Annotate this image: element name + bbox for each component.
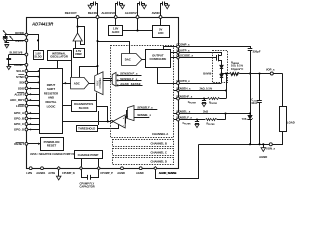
block 2.5V VREF — [74, 49, 85, 58]
svg-text:SLDO: SLDO — [34, 55, 41, 59]
wire SLDO1V8 decoupling — [9, 54, 25, 56]
supply arrow DVCC — [10, 36, 13, 40]
pin DGND — [25, 63, 28, 66]
ground AGND below line — [263, 144, 265, 147]
wire DVCC to pin — [7, 40, 25, 42]
block POWER-ON RESET — [41, 138, 64, 151]
pin CPUMP_N — [79, 167, 82, 170]
svg-text:SHIFT: SHIFT — [47, 87, 55, 91]
svg-text:REGISTER: REGISTER — [44, 91, 58, 95]
svg-text:AGND: AGND — [136, 171, 144, 175]
svg-text:LVIN: LVIN — [26, 171, 32, 175]
svg-text:SENSEL_x: SENSEL_x — [137, 113, 151, 117]
svg-text:CPUMP FLY: CPUMP FLY — [80, 181, 95, 185]
dashed box CHANNEL A — [111, 46, 174, 138]
wire oscillator to digital block — [57, 61, 59, 69]
regulator block 1.8V SLDO — [34, 51, 44, 60]
net stub SENSEHF_x into sense mux — [118, 75, 141, 77]
svg-text:I/ON_x: I/ON_x — [266, 147, 275, 151]
svg-text:DAC: DAC — [125, 58, 131, 62]
svg-text:CHANNEL C: CHANNEL C — [151, 150, 167, 154]
wire sensel vertical — [225, 114, 227, 120]
wire digital block to diagnostics block — [63, 105, 72, 107]
pin AGND — [139, 167, 142, 170]
wire REFIN branch to channel mux — [97, 66, 99, 74]
wire LDAC to digital block — [28, 105, 40, 107]
net stub AGND_SENSE into sense mux — [118, 85, 142, 87]
svg-text:DIAGNOSTICS: DIAGNOSTICS — [74, 102, 93, 106]
svg-text:CPUMP_P: CPUMP_P — [100, 171, 113, 175]
pin ALDO5V — [136, 16, 139, 19]
svg-text:GPO_B: GPO_B — [14, 117, 24, 121]
svg-text:FILTER: FILTER — [189, 102, 196, 104]
dashed box CHANNEL D — [113, 158, 174, 165]
regulator block 1.8V ALDO — [109, 26, 123, 36]
wire channel mux to sense mux upper — [103, 78, 112, 80]
pin SDI — [25, 81, 28, 84]
svg-text:SYNC: SYNC — [16, 75, 25, 79]
pin IOP_x screw terminal — [270, 72, 273, 75]
svg-text:VREF: VREF — [75, 52, 82, 56]
node SLDO cap on DGND wire — [8, 64, 10, 66]
pin ADC_RDY — [25, 99, 28, 102]
resistor RFILTER of SENSEHF — [208, 98, 220, 100]
pin AVSS — [57, 167, 60, 170]
dashed box CHANNEL C — [113, 149, 174, 156]
wire DAC to output configure — [142, 59, 146, 61]
svg-text:10nF: 10nF — [251, 101, 258, 105]
wire REFIN into chip to ADC reference — [80, 19, 98, 78]
pin VIOUTP_x — [176, 51, 179, 54]
capacitor CPUMP fly capacitor — [82, 170, 88, 178]
wire sense vertical to RSENSE left — [226, 74, 228, 99]
svg-text:FILTER: FILTER — [208, 124, 215, 126]
wire output configure to VIOUTP_x pin — [171, 52, 177, 54]
svg-text:LOAD: LOAD — [287, 120, 295, 124]
pin GPO_B — [25, 117, 28, 120]
ground for DVCC cap — [5, 45, 9, 48]
svg-text:SENSELF_x: SENSELF_x — [120, 77, 138, 81]
diode D2 BAV99 bottom — [220, 74, 223, 77]
wire VIOUTN_x to BAV99 bottom — [180, 83, 222, 85]
wire output configure to CCOMP_x pin — [164, 47, 177, 50]
wire diagnostics block to threshold — [98, 111, 100, 125]
sense select mux — [112, 72, 116, 86]
wire GPO_C to digital block — [28, 124, 40, 126]
svg-text:DGND: DGND — [14, 63, 22, 67]
wire SDO to digital block — [28, 88, 40, 90]
regulator block 5V LDO — [153, 26, 170, 38]
svg-text:AND: AND — [48, 96, 54, 100]
wire RESET to power-on reset block — [28, 143, 40, 145]
ground for ALDO5V cap — [142, 5, 146, 9]
svg-text:SENSELF_x: SENSELF_x — [137, 106, 153, 110]
pin SCLK — [25, 70, 28, 73]
pin REFOUT — [76, 16, 79, 19]
svg-text:INTERNAL: INTERNAL — [52, 51, 66, 55]
svg-text:CHANNEL D: CHANNEL D — [151, 159, 167, 163]
svg-text:AVDD: AVDD — [152, 11, 160, 15]
svg-text:5V: 5V — [159, 28, 162, 32]
pin ALDO1V8 — [114, 16, 117, 19]
transistor Q1 external FET — [216, 55, 218, 61]
svg-text:CONFIGURE: CONFIGURE — [150, 57, 167, 61]
node CLOAD bottom — [258, 143, 260, 145]
svg-text:CHARGE PUMP: CHARGE PUMP — [78, 153, 99, 157]
ground for SENSEHF CFILTER — [202, 103, 206, 106]
svg-text:SLDO1V8: SLDO1V8 — [9, 51, 22, 55]
block DIAGNOSTICS BLOCK — [72, 101, 97, 112]
comparator U3 digital input — [113, 115, 125, 128]
resistor RFILTER of SENSELF — [206, 119, 218, 121]
pin CASCODE_x — [176, 56, 179, 59]
pin IOVDD — [25, 33, 28, 36]
wire oscillator to ADC — [71, 61, 73, 78]
decoupling capacitor on REFIN to AGND — [96, 4, 98, 16]
svg-text:CHANNEL B: CHANNEL B — [151, 141, 167, 145]
svg-text:DIGITAL: DIGITAL — [46, 100, 57, 104]
wire AVDD to 5V LDO block — [160, 18, 162, 25]
pin DVCC — [25, 39, 28, 42]
wire AGND_SENSE to AGND line — [156, 145, 199, 179]
pin SENSEHF_x — [177, 97, 180, 100]
svg-text:SDO: SDO — [18, 86, 25, 90]
wire channel mux to sense mux lower — [103, 80, 112, 82]
svg-text:BAV99: BAV99 — [203, 72, 212, 76]
decoupling capacitor on DVCC — [6, 40, 8, 42]
wire LOAD to AGND line — [199, 132, 283, 145]
svg-text:AGND_SENSE: AGND_SENSE — [159, 171, 177, 175]
supply arrow IOVDD — [3, 30, 6, 34]
svg-text:2kΩ: 2kΩ — [203, 110, 209, 114]
decoupling capacitor on AVDD to AGND — [161, 4, 163, 16]
wire threshold to comparator — [98, 125, 119, 129]
pin GPO_D — [25, 128, 28, 131]
pin AGND1 — [41, 167, 44, 170]
wire SENSEH_x with 2k resistor — [180, 90, 226, 92]
pin SDO — [25, 87, 28, 90]
pin SLDO1V8 — [25, 53, 28, 56]
ground for ALDO1V8 cap — [120, 5, 124, 9]
pin SENSELF_x — [177, 118, 180, 121]
block INTERNAL OSCILLATOR — [48, 51, 72, 61]
wire ALERT to digital block — [28, 94, 40, 96]
block THRESHOLD — [77, 126, 98, 132]
node BAV99 midpoint — [220, 72, 222, 74]
pin SENSEH_x — [176, 89, 179, 92]
svg-text:ADC: ADC — [74, 81, 80, 85]
decoupling capacitor on ALDO1V8 to AGND — [116, 4, 118, 16]
wire ADC_RDY to digital block — [28, 100, 40, 102]
wire ADC output to digital block — [63, 83, 71, 85]
svg-text:AGND1: AGND1 — [36, 171, 46, 175]
wire TVS branch — [250, 74, 252, 116]
wire output configure to VIOUTN_x pin — [158, 68, 177, 84]
wire IOP to LOAD — [282, 74, 284, 107]
wire ADC to channel mux — [89, 83, 95, 85]
svg-text:LDO: LDO — [158, 31, 164, 35]
svg-text:GPO_C: GPO_C — [14, 122, 25, 126]
wire ALDO5V down to regulator rail — [137, 18, 139, 30]
wire ALDO1V8 to 1.8V ALDO block — [115, 18, 117, 25]
wire REFOUT to buffer amp — [77, 18, 79, 33]
capacitor C SLDO1V8 to DGND — [8, 55, 10, 59]
mux feeding comparator — [128, 106, 135, 121]
wire mux to comparator inputs — [127, 111, 128, 119]
ground AVSS symbol — [58, 170, 60, 176]
pin VIOUTN_x — [177, 82, 180, 85]
wire DGND to ground — [9, 64, 25, 66]
resistor RSENSE — [222, 73, 230, 75]
pin CCOMP_x — [177, 45, 180, 48]
svg-text:AD74413R: AD74413R — [31, 22, 54, 27]
svg-text:ALDO1V8: ALDO1V8 — [101, 11, 115, 15]
svg-text:GPO_A: GPO_A — [14, 111, 25, 115]
capacitor 220pF — [248, 48, 253, 50]
diode TVS — [248, 115, 252, 119]
svg-text:CAPACITOR: CAPACITOR — [80, 185, 95, 189]
svg-text:2.5V: 2.5V — [76, 49, 82, 53]
dashed box around BAV99 — [213, 51, 228, 83]
ground for REFIN cap — [88, 5, 92, 9]
wire GPO_A to digital block — [28, 113, 40, 115]
pin ION_x screw terminal — [269, 143, 272, 146]
svg-text:CPUMP_N: CPUMP_N — [62, 171, 75, 175]
svg-text:AGND: AGND — [117, 171, 125, 175]
wire between 1.8V ALDO and 5V LDO — [123, 30, 153, 32]
pin LVIN — [29, 167, 32, 170]
resistor LOAD — [280, 107, 287, 132]
svg-text:100, 0.1%: 100, 0.1% — [231, 64, 244, 68]
decoupling capacitor on IOVDD — [5, 35, 7, 36]
pin SENSEL_x — [177, 112, 180, 115]
wire GPO_D to digital block — [28, 129, 40, 131]
capacitor CFILTER of SENSEHF — [204, 99, 206, 101]
block SPI input shift register and digital logic — [40, 69, 63, 134]
channel mux block — [95, 72, 103, 95]
svg-text:SCLK: SCLK — [16, 69, 25, 73]
block OUTPUT CONFIGURE — [146, 50, 171, 68]
svg-text:DVCC: DVCC — [15, 39, 23, 43]
wire SENSEHF_x filter — [180, 98, 208, 100]
net stub SENSELF_x into sense mux — [118, 80, 141, 82]
wire 220pF to IOP node — [250, 51, 252, 74]
wire SCLK to digital block — [28, 71, 40, 73]
svg-text:10ppm/°C: 10ppm/°C — [231, 67, 243, 71]
svg-text:REFOUT: REFOUT — [65, 11, 77, 15]
svg-text:THRESHOLD: THRESHOLD — [78, 126, 95, 130]
svg-text:REFIN: REFIN — [88, 11, 97, 15]
wire output configure to CASCODE_x pin — [171, 57, 177, 59]
decoupling capacitor on ALDO5V to AGND — [138, 4, 140, 16]
pin ALERT — [25, 93, 28, 96]
svg-text:2kΩ, 0.1%: 2kΩ, 0.1% — [200, 87, 213, 91]
pin AGND — [121, 167, 124, 170]
svg-text:IOVDD: IOVDD — [15, 31, 24, 35]
wire VREF to buffer input — [75, 41, 77, 48]
svg-text:SENSEHF_x: SENSEHF_x — [120, 72, 138, 76]
svg-text:FILTER: FILTER — [211, 103, 218, 105]
wire diagnostics to comparator output node — [97, 107, 108, 122]
svg-text:ADC_RDY: ADC_RDY — [10, 98, 24, 102]
svg-text:1.8V: 1.8V — [113, 27, 119, 31]
wire SENSELF_x filter — [180, 119, 206, 121]
capacitor CFILTER of SENSELF — [197, 120, 199, 122]
svg-text:220pF: 220pF — [253, 49, 261, 53]
pin AGND_SENSE — [154, 167, 157, 170]
wire IOVDD to pin — [5, 34, 25, 36]
wire IOVDD/DVCC to SLDO — [28, 35, 39, 51]
svg-text:TVS: TVS — [242, 117, 247, 121]
ground for SENSELF CFILTER — [195, 124, 199, 127]
wire charge pump to CPUMP_P pin — [98, 159, 100, 167]
dashed box CHANNEL B — [113, 140, 174, 147]
wire channel mux to diagnostics block — [96, 93, 98, 101]
svg-text:BLOCK: BLOCK — [79, 106, 89, 110]
svg-text:ALDO5V: ALDO5V — [125, 11, 137, 15]
node on REFOUT wire — [77, 26, 79, 28]
wire SDI to digital block — [28, 82, 40, 84]
adc U2 block — [71, 77, 89, 89]
wire CCOMP_x to 220pF cap — [180, 47, 251, 49]
ground DGND symbol — [8, 65, 10, 67]
block CHARGE PUMP — [75, 151, 103, 159]
svg-text:AVSS: AVSS — [48, 171, 55, 175]
wire SENSEL_x to IOP side — [180, 113, 251, 115]
pin GPO_C — [25, 123, 28, 126]
wire RSENSE to IOP_x — [240, 73, 283, 75]
svg-text:RESET: RESET — [47, 144, 57, 148]
ground for IOVDD cap — [3, 39, 7, 42]
svg-text:LOGIC: LOGIC — [47, 104, 56, 108]
svg-text:1.8V: 1.8V — [35, 51, 41, 55]
svg-text:MUX: MUX — [97, 80, 99, 85]
wire SENSEH_x stub inside chip — [174, 90, 177, 92]
dac U4 block — [122, 54, 142, 66]
svg-text:FILTER: FILTER — [184, 123, 191, 125]
capacitor CLOAD branch — [259, 74, 261, 101]
svg-text:GPO_D: GPO_D — [14, 128, 24, 132]
node CLOAD top — [258, 72, 260, 74]
svg-text:AGND: AGND — [259, 155, 267, 159]
pin REFIN — [96, 16, 99, 19]
wire charge pump to CPUMP_N pin — [81, 159, 83, 167]
wire VIOUTP_x to external FET drain — [180, 53, 222, 56]
wire REFIN rail to DAC input — [98, 42, 130, 54]
svg-text:ALDO: ALDO — [112, 30, 120, 34]
wire SENSEL_x to comparator mux — [134, 117, 149, 119]
wire SENSELF_x to comparator mux — [134, 109, 157, 111]
svg-text:AGND_SENSE: AGND_SENSE — [119, 82, 141, 86]
wire SENSEL_x stub inside chip — [174, 113, 177, 115]
wire comparator output to digital block — [63, 121, 111, 123]
node SENSEH on sense vertical — [225, 89, 227, 91]
wire feedback of REFOUT buffer — [78, 27, 85, 45]
wire GPO_B to digital block — [28, 118, 40, 120]
svg-text:INPUT: INPUT — [47, 83, 56, 87]
wire SENSELF_x stub inside chip — [174, 119, 177, 121]
pin GPO_A — [25, 112, 28, 115]
chip body AD74413R — [27, 18, 179, 169]
node 220pF-IOP — [249, 72, 251, 74]
svg-text:ALERT: ALERT — [14, 92, 24, 96]
svg-text:I/OP_x: I/OP_x — [266, 68, 275, 72]
op-amp U1 REFOUT buffer — [73, 33, 82, 41]
wire SENSEHF_x stub inside chip — [174, 98, 177, 100]
pin LDAC — [25, 104, 28, 107]
pin AVDD — [159, 16, 162, 19]
diode D1 BAV99 top — [220, 65, 223, 68]
ground for AVDD cap — [165, 5, 169, 9]
pin RESET — [25, 142, 28, 145]
svg-text:CHANNEL A: CHANNEL A — [152, 132, 168, 136]
wire SYNC to digital block — [28, 76, 40, 78]
pin SYNC — [25, 75, 28, 78]
node TVS bottom — [249, 143, 251, 145]
svg-text:OSCILLATOR: OSCILLATOR — [50, 55, 68, 59]
pin CPUMP_P — [97, 167, 100, 170]
wire CASCODE_x to external FET gate — [180, 57, 217, 59]
svg-text:SDI: SDI — [19, 81, 24, 85]
